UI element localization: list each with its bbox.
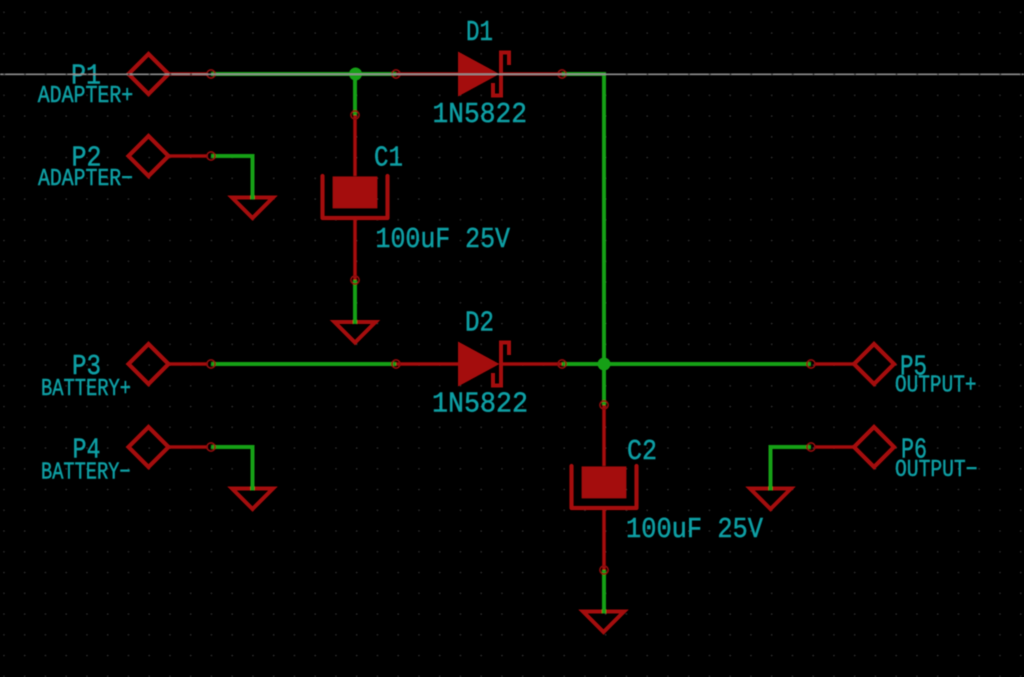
svg-text:OUTPUT+: OUTPUT+ [895,373,977,400]
svg-text:D1: D1 [466,16,493,49]
svg-text:D2: D2 [465,307,494,340]
svg-text:ADAPTER−: ADAPTER− [38,166,133,193]
svg-text:ADAPTER+: ADAPTER+ [38,83,134,110]
svg-text:100uF 25V: 100uF 25V [626,513,764,546]
svg-text:OUTPUT−: OUTPUT− [895,457,978,484]
svg-text:100uF 25V: 100uF 25V [376,223,511,256]
svg-text:C1: C1 [374,141,403,174]
svg-text:BATTERY+: BATTERY+ [41,376,131,403]
svg-text:C2: C2 [627,435,657,468]
svg-text:1N5822: 1N5822 [432,388,528,421]
svg-text:BATTERY−: BATTERY− [41,460,131,487]
svg-text:1N5822: 1N5822 [433,98,528,131]
